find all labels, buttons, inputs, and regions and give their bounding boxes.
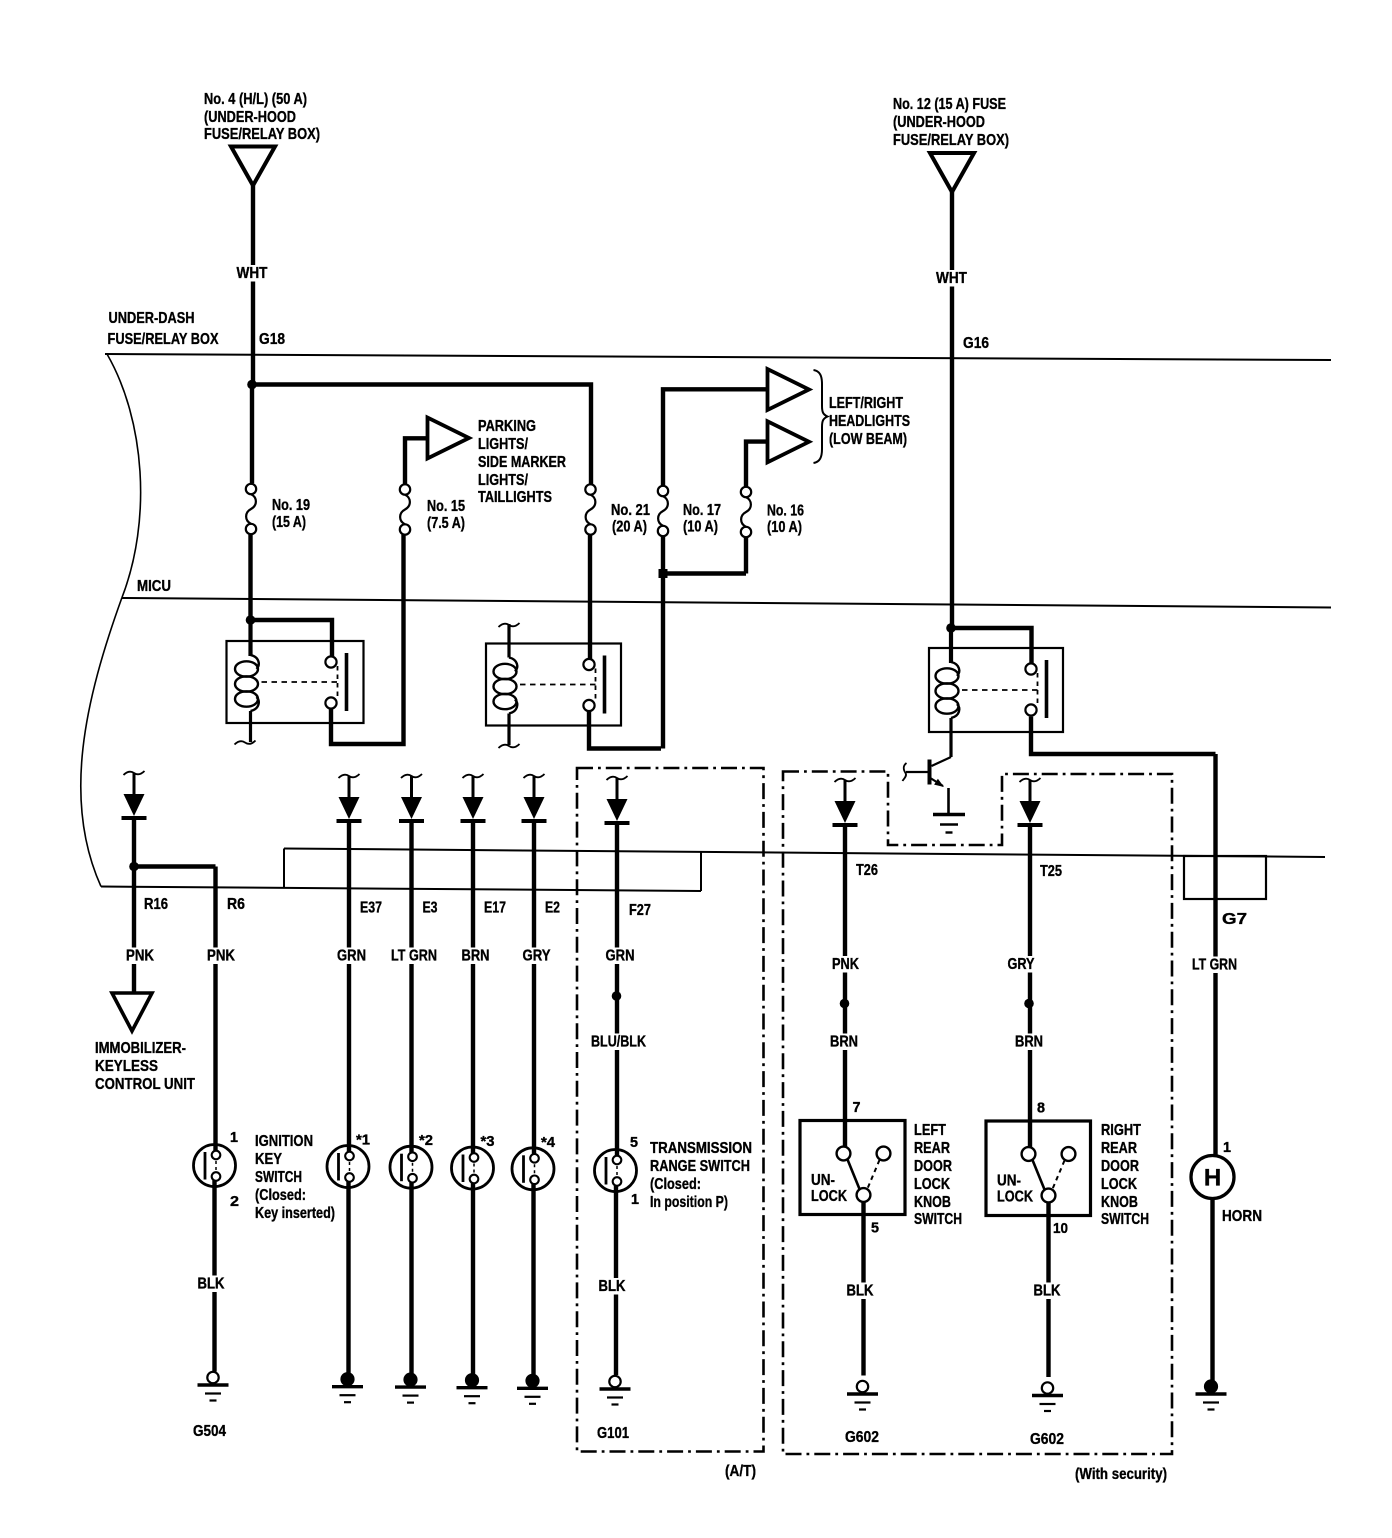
diode (F27 column) continuation tick — [607, 776, 628, 780]
ground G602 (left) — [847, 1381, 878, 1410]
switch *4 — [512, 1148, 554, 1190]
box torn-edge curve lower — [81, 598, 122, 887]
fuse No.16 (10A) — [741, 487, 751, 537]
svg-text:G16: G16 — [963, 335, 989, 352]
wire color GRN (E37) — [336, 948, 368, 965]
wire from fuse junction down to relay 2 output — [661, 574, 665, 749]
svg-text:5: 5 — [871, 1220, 879, 1237]
svg-text:UNDER-DASH: UNDER-DASH — [109, 310, 195, 327]
svg-text:SIDE MARKER: SIDE MARKER — [478, 454, 566, 471]
svg-text:KEY: KEY — [255, 1151, 282, 1168]
svg-text:1: 1 — [1223, 1139, 1231, 1156]
connector band lower line — [101, 887, 701, 892]
svg-text:KNOB: KNOB — [1101, 1194, 1138, 1211]
diode (E37 column) continuation tick — [339, 774, 360, 778]
svg-text:No. 12 (15 A) FUSE: No. 12 (15 A) FUSE — [893, 96, 1006, 113]
svg-text:WHT: WHT — [936, 270, 967, 287]
connector band right step edge — [700, 852, 702, 891]
svg-text:2: 2 — [230, 1193, 239, 1210]
box torn-edge curve upper — [107, 354, 141, 598]
wire BLK transmission switch to ground — [614, 1186, 618, 1376]
svg-text:(LOW BEAM): (LOW BEAM) — [829, 431, 907, 448]
wire fuse No.17 bottom — [661, 536, 665, 574]
diode (E17 column) — [461, 776, 486, 821]
power feed No.4 (H/L) fuse symbol — [231, 147, 275, 186]
svg-text:LOCK: LOCK — [997, 1189, 1033, 1206]
diode (T25 column) — [1018, 780, 1043, 825]
connector band upper line — [284, 849, 1325, 858]
wire color GRN (F27) — [604, 948, 636, 965]
wire relay 2 contact output to fuse junction riser — [589, 710, 661, 748]
svg-text:REAR: REAR — [914, 1140, 950, 1157]
wire color LT GRN — [1191, 957, 1239, 974]
left door switch contacts — [837, 1147, 891, 1202]
svg-text:SWITCH: SWITCH — [255, 1169, 302, 1186]
svg-text:R6: R6 — [227, 896, 245, 913]
svg-text:TAILLIGHTS: TAILLIGHTS — [478, 489, 552, 506]
wire T26 down to left door lock switch — [843, 826, 847, 1147]
wire E37 column down to switch — [347, 822, 351, 1152]
svg-text:Key inserted): Key inserted) — [255, 1205, 335, 1222]
relay U1 (parking light relay) — [227, 641, 364, 723]
svg-text:LIGHTS/: LIGHTS/ — [478, 436, 528, 453]
wire E3 column down to switch — [409, 822, 413, 1153]
switch *1 — [327, 1146, 369, 1188]
wire color BLK (F27) — [597, 1278, 627, 1295]
connector band left step edge — [283, 849, 285, 888]
svg-text:KNOB: KNOB — [914, 1194, 951, 1211]
wire color BRN (T25) — [1014, 1034, 1045, 1051]
svg-text:GRN: GRN — [606, 948, 635, 965]
svg-text:LOCK: LOCK — [811, 1188, 847, 1205]
diode (F27 column) — [605, 778, 630, 823]
wire fuse No.19 bottom to relay 1 — [248, 535, 252, 620]
ground (*2 column) — [395, 1374, 426, 1403]
svg-text:DOOR: DOOR — [914, 1158, 952, 1175]
svg-text:E2: E2 — [545, 900, 560, 917]
With-security option dash-dot box — [783, 772, 1172, 1455]
svg-text:No. 15: No. 15 — [427, 498, 465, 515]
svg-text:KEYLESS: KEYLESS — [95, 1058, 158, 1075]
diode (T26 column) — [833, 780, 858, 825]
under-dash fuse/relay box top boundary — [105, 354, 1331, 360]
transistor Q1 — [906, 757, 951, 814]
transistor base continuation tick — [903, 763, 907, 781]
svg-text:(Closed:: (Closed: — [255, 1187, 306, 1204]
svg-text:E17: E17 — [484, 900, 506, 917]
svg-text:MICU: MICU — [137, 578, 171, 595]
svg-text:10: 10 — [1053, 1220, 1068, 1237]
diode (E2 column) — [522, 776, 547, 821]
fuse No.21 (20A) — [585, 484, 595, 534]
svg-text:(20 A): (20 A) — [612, 519, 647, 536]
svg-text:T26: T26 — [856, 862, 878, 879]
ground G602 (right) — [1032, 1382, 1063, 1411]
wire BLK right door switch to ground — [1046, 1203, 1050, 1378]
wire color WHT (right) — [935, 270, 969, 287]
svg-text:E37: E37 — [360, 900, 382, 917]
svg-text:WHT: WHT — [237, 265, 268, 282]
ground (*1 column) — [332, 1373, 363, 1402]
ground (horn) — [1196, 1381, 1227, 1410]
diode (E3 column) — [399, 776, 424, 821]
wire WHT from No.12 feed down to relay 3 — [950, 192, 954, 628]
svg-text:LT GRN: LT GRN — [391, 948, 437, 965]
wire E17 column down to switch — [471, 822, 475, 1154]
wire from junction to relay 1 contact — [251, 620, 333, 656]
wire fuse No.16 bottom — [744, 537, 748, 574]
svg-text:PNK: PNK — [207, 948, 235, 965]
svg-text:In position P): In position P) — [650, 1194, 728, 1211]
switch transmission range switch — [595, 1150, 637, 1192]
wire switch *3 to ground — [471, 1183, 475, 1374]
svg-text:8: 8 — [1037, 1100, 1045, 1117]
wire horn to ground — [1210, 1199, 1214, 1381]
fuse No.19 (15A) — [246, 484, 256, 534]
svg-text:(UNDER-HOOD: (UNDER-HOOD — [893, 114, 985, 131]
wire color PNK (T26) — [831, 956, 861, 973]
diode (E2 column) continuation tick — [524, 774, 545, 778]
A/T option dash-dot box — [577, 768, 764, 1452]
junction node R16/R6 — [129, 862, 139, 872]
junction node at G18 branch — [247, 380, 257, 390]
svg-text:SWITCH: SWITCH — [1101, 1211, 1149, 1228]
wire color BLK (ignition) — [196, 1276, 226, 1293]
svg-text:(With security): (With security) — [1075, 1466, 1167, 1483]
relay 3 coil bottom to transistor — [949, 718, 952, 757]
horn — [1191, 1156, 1234, 1199]
wire relay 1 contact output up to fuse No.15 — [331, 535, 404, 744]
diode (T25 column) continuation tick — [1020, 778, 1041, 782]
wire BLK ignition switch to ground — [212, 1181, 216, 1372]
MICU boundary line — [122, 598, 1331, 608]
svg-text:FUSE/RELAY BOX): FUSE/RELAY BOX) — [204, 126, 320, 143]
svg-text:G504: G504 — [193, 1423, 226, 1440]
ground G504 — [198, 1372, 229, 1401]
svg-text:GRY: GRY — [523, 948, 551, 965]
wire T25 down to right door lock switch — [1028, 826, 1032, 1148]
right door switch contacts — [1022, 1147, 1076, 1202]
svg-text:*4: *4 — [541, 1134, 556, 1151]
wire branch from G18 junction to fuse No.21 — [252, 385, 591, 485]
wire fuse No.21 bottom into relay 2 contact — [588, 535, 592, 659]
svg-text:LEFT/RIGHT: LEFT/RIGHT — [829, 395, 903, 412]
junction node (T26 splice) — [840, 999, 850, 1009]
svg-text:No. 16: No. 16 — [767, 503, 804, 520]
wire color GRY (T25) — [1006, 956, 1036, 973]
diode (E3 column) continuation tick — [401, 774, 422, 778]
relay 1 coil bottom stub — [249, 711, 252, 742]
svg-text:CONTROL UNIT: CONTROL UNIT — [95, 1076, 195, 1093]
svg-text:*1: *1 — [356, 1132, 370, 1149]
wire switch *4 to ground — [531, 1184, 535, 1375]
left rear door lock knob switch box — [800, 1121, 905, 1215]
connector box G7 — [1184, 856, 1266, 899]
svg-text:UN-: UN- — [811, 1172, 835, 1189]
wire color BLU/BLK — [590, 1034, 648, 1051]
svg-text:G602: G602 — [1030, 1431, 1064, 1448]
svg-text:DOOR: DOOR — [1101, 1158, 1139, 1175]
svg-text:LIGHTS/: LIGHTS/ — [478, 472, 528, 489]
wire color BRN (E17) — [460, 948, 491, 965]
wire R6 down to ignition key switch — [213, 867, 217, 1152]
svg-text:G101: G101 — [597, 1425, 629, 1442]
diode D1 (R16 column) — [122, 773, 147, 818]
svg-text:(UNDER-HOOD: (UNDER-HOOD — [204, 109, 296, 126]
svg-text:BRN: BRN — [462, 948, 490, 965]
svg-text:FUSE/RELAY BOX): FUSE/RELAY BOX) — [893, 132, 1009, 149]
junction node BLU/BLK splice — [612, 991, 622, 1001]
wire BLK left door switch to ground — [861, 1202, 865, 1376]
wire color LT GRN (E3) — [390, 948, 439, 965]
junction node (T25 splice) — [1024, 999, 1034, 1009]
svg-text:No. 21: No. 21 — [611, 502, 650, 519]
svg-text:LOCK: LOCK — [1101, 1176, 1137, 1193]
wire relay 3 contact output toward horn — [1031, 717, 1216, 754]
wire junction to R6 column — [134, 864, 216, 868]
svg-text:H: H — [1204, 1165, 1221, 1192]
svg-text:SWITCH: SWITCH — [914, 1211, 962, 1228]
junction node fuse17/16 — [659, 569, 668, 578]
wire color BLK (right door) — [1032, 1283, 1062, 1300]
ground G101 — [600, 1376, 631, 1405]
relay 2 coil bottom continuation tick — [499, 744, 520, 748]
curly bracket for headlights — [814, 370, 828, 463]
svg-text:RIGHT: RIGHT — [1101, 1122, 1141, 1139]
svg-text:RANGE SWITCH: RANGE SWITCH — [650, 1158, 750, 1175]
svg-text:No. 4 (H/L) (50 A): No. 4 (H/L) (50 A) — [204, 91, 307, 108]
wire color BLK (left door) — [845, 1283, 875, 1300]
svg-text:UN-: UN- — [997, 1173, 1021, 1190]
svg-text:PNK: PNK — [126, 948, 154, 965]
svg-text:LT GRN: LT GRN — [1192, 957, 1237, 974]
svg-text:7: 7 — [853, 1099, 861, 1116]
diode (T26 column) continuation tick — [835, 778, 856, 782]
svg-text:PARKING: PARKING — [478, 418, 536, 435]
svg-text:T25: T25 — [1040, 863, 1062, 880]
wire color BRN (T26) — [829, 1034, 860, 1051]
svg-text:BLK: BLK — [1034, 1283, 1061, 1300]
output arrow to parking lights — [428, 418, 470, 459]
relay U2 (headlight relay) — [486, 644, 621, 726]
svg-text:PNK: PNK — [832, 956, 859, 973]
wire from fuse No.15 top to parking arrow — [405, 438, 426, 484]
wire into relay 3 coil — [949, 628, 953, 663]
svg-text:E3: E3 — [423, 900, 438, 917]
diode (E17 column) continuation tick — [463, 774, 484, 778]
svg-text:G602: G602 — [845, 1429, 879, 1446]
wire down to immobilizer unit — [132, 867, 136, 994]
switch *3 — [452, 1147, 494, 1189]
svg-text:BRN: BRN — [1015, 1034, 1043, 1051]
svg-text:G7: G7 — [1222, 911, 1247, 928]
diode (E37 column) — [337, 776, 362, 821]
svg-text:(10 A): (10 A) — [767, 519, 802, 536]
wire fuse No.17 to headlight arrow 1 — [663, 389, 766, 485]
svg-text:1: 1 — [230, 1129, 238, 1146]
svg-text:BLK: BLK — [599, 1278, 626, 1295]
svg-text:(10 A): (10 A) — [683, 519, 718, 536]
power feed No.12 fuse symbol — [930, 153, 974, 192]
relay 2 coil top stub — [507, 624, 510, 658]
svg-text:HORN: HORN — [1222, 1208, 1262, 1225]
svg-text:(7.5 A): (7.5 A) — [427, 515, 465, 532]
wire F27 column down to transmission range switch — [615, 824, 619, 1156]
svg-text:REAR: REAR — [1101, 1140, 1137, 1157]
svg-text:LOCK: LOCK — [914, 1176, 950, 1193]
ground for transistor emitter — [933, 815, 965, 833]
wire color PNK (R16) — [125, 948, 156, 965]
svg-text:(A/T): (A/T) — [725, 1463, 756, 1480]
relay 2 coil bottom stub — [507, 714, 510, 746]
wire switch *1 to ground — [346, 1182, 350, 1374]
junction node relay 1 feed — [246, 615, 256, 625]
svg-text:BRN: BRN — [830, 1034, 858, 1051]
fuse No.17 (10A) — [658, 486, 668, 536]
svg-text:(15 A): (15 A) — [272, 514, 306, 531]
svg-text:1: 1 — [631, 1191, 639, 1208]
right rear door lock knob switch box — [986, 1121, 1091, 1216]
ground (*4 column) — [517, 1375, 548, 1404]
svg-text:*3: *3 — [481, 1133, 495, 1150]
svg-text:F27: F27 — [629, 902, 651, 919]
switch S1 ignition key switch — [194, 1145, 236, 1187]
svg-text:TRANSMISSION: TRANSMISSION — [650, 1140, 752, 1157]
svg-text:5: 5 — [630, 1134, 638, 1151]
relay 2 coil top continuation tick — [499, 623, 520, 627]
relay 1 coil continuation tick — [235, 741, 256, 745]
wire fuse No.16 to headlight arrow 2 — [746, 442, 766, 487]
wire LT GRN down to horn — [1213, 754, 1217, 1156]
output arrow to right headlight — [768, 421, 810, 462]
output arrow to left headlight — [768, 369, 810, 410]
wire color PNK (R6) — [206, 948, 237, 965]
svg-text:*2: *2 — [419, 1132, 433, 1149]
svg-text:HEADLIGHTS: HEADLIGHTS — [829, 413, 910, 430]
wire color GRY (E2) — [521, 948, 552, 965]
svg-text:GRN: GRN — [337, 948, 366, 965]
svg-text:IGNITION: IGNITION — [255, 1133, 313, 1150]
wire from junction to relay 3 contact — [951, 628, 1032, 663]
wire joining fuse 16 to junction — [663, 571, 746, 575]
diode D1 (R16 column) continuation tick — [124, 771, 145, 775]
immobilizer-keyless control unit triangle — [112, 993, 152, 1031]
svg-text:R16: R16 — [144, 896, 168, 913]
wire down to fuse No.19 — [250, 385, 254, 484]
wire WHT from No.4 feed down to G18 — [251, 186, 255, 385]
svg-text:IMMOBILIZER-: IMMOBILIZER- — [95, 1040, 186, 1057]
wire into relay 1 coil — [248, 620, 252, 656]
wire color WHT (left) — [235, 265, 269, 282]
wire E2 column down to switch — [532, 822, 536, 1155]
svg-text:GRY: GRY — [1008, 956, 1035, 973]
svg-text:No. 17: No. 17 — [683, 502, 721, 519]
svg-text:FUSE/RELAY BOX: FUSE/RELAY BOX — [108, 331, 219, 348]
junction node relay 3 feed — [946, 623, 956, 633]
svg-text:LEFT: LEFT — [914, 1122, 946, 1139]
svg-text:No. 19: No. 19 — [272, 497, 310, 514]
wire diode D1 to junction — [132, 819, 136, 867]
svg-text:BLU/BLK: BLU/BLK — [591, 1034, 646, 1051]
svg-text:BLK: BLK — [847, 1283, 874, 1300]
fuse No.15 (7.5A) — [400, 484, 410, 534]
svg-text:G18: G18 — [259, 331, 285, 348]
svg-text:(Closed:: (Closed: — [650, 1176, 701, 1193]
wire switch *2 to ground — [409, 1182, 413, 1373]
svg-text:BLK: BLK — [198, 1276, 225, 1293]
ground (*3 column) — [457, 1374, 488, 1403]
switch *2 — [390, 1146, 432, 1188]
relay U3 (horn relay) — [929, 648, 1063, 732]
